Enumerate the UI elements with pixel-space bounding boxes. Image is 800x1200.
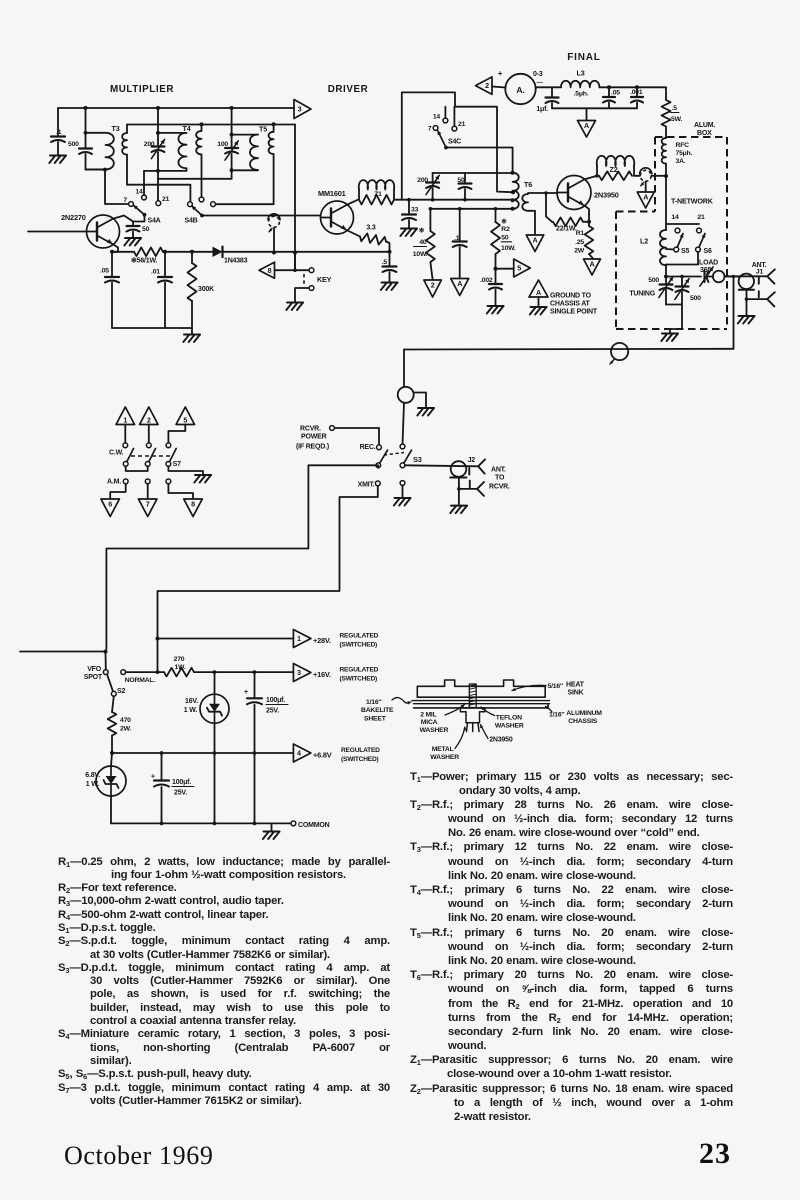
triangle A under feedthrough — [637, 182, 654, 209]
wire 16V zener to bus — [214, 723, 216, 823]
wire tri2 stem — [148, 425, 150, 444]
label S5 — [681, 248, 689, 255]
feedthrough capacitor at driver base — [268, 214, 280, 232]
triangle A under R1 — [584, 259, 601, 275]
contact S3 right throw — [400, 444, 405, 449]
transistor 2N3950 label — [594, 191, 619, 200]
antenna fork J2 lower — [477, 482, 484, 496]
transformer T5 secondary — [215, 124, 274, 204]
svg-text:3.3: 3.3 — [366, 225, 375, 232]
contact S4B-1 — [188, 202, 193, 207]
wire S6 stub — [697, 252, 699, 265]
transformer T6 secondary — [522, 194, 535, 235]
wire 100cap top link — [232, 134, 258, 136]
dashed aluminum box left lower — [615, 212, 617, 330]
label S2 — [117, 688, 125, 695]
svg-text:R1: R1 — [576, 230, 585, 237]
svg-text:FINAL: FINAL — [567, 52, 600, 63]
label 21 tnet — [697, 214, 705, 221]
wire S3 common staircase — [106, 465, 378, 649]
svg-text:WASHER: WASHER — [495, 722, 524, 729]
label ANT TO RCVR — [489, 467, 510, 491]
svg-text:RCVR.: RCVR. — [300, 426, 321, 433]
wire meter to L3 — [536, 86, 561, 88]
wire .05 to bottom bus — [111, 283, 113, 329]
node 200 cap top — [156, 131, 160, 135]
svg-text:T4: T4 — [183, 124, 191, 133]
svg-text:TEFLON: TEFLON — [496, 715, 522, 722]
label ANT J1 — [752, 262, 767, 276]
node emitter-R1 — [587, 220, 591, 224]
wire common ground stem — [271, 823, 273, 831]
svg-text:(SWITCHED): (SWITCHED) — [340, 676, 378, 683]
svg-text:21: 21 — [162, 196, 170, 203]
label LOAD 365 — [699, 260, 718, 275]
wire 100cap feed — [231, 108, 233, 135]
S7 gang dashed — [131, 455, 172, 457]
wire .5 to ground — [389, 272, 391, 282]
label NORMAL — [125, 677, 156, 684]
ground beside feedthrough — [417, 408, 434, 416]
capacitor 200 variable — [144, 133, 165, 159]
contact s7-2 bottom — [145, 479, 150, 484]
bakelite sheet — [412, 701, 550, 704]
node 22 base tap — [544, 191, 548, 195]
svg-text:25V.: 25V. — [266, 708, 279, 715]
svg-text:5: 5 — [183, 415, 187, 424]
wire s7 common 3 to ground — [168, 466, 203, 474]
transistor Q1 2N2270 — [87, 215, 120, 248]
transformer T4 primary — [178, 133, 186, 168]
wire 270 to 16V line — [194, 671, 293, 673]
wire common bus — [111, 822, 291, 824]
node 16V zener top — [213, 670, 217, 674]
svg-text:33: 33 — [411, 207, 419, 214]
wire L2 to tuning node — [665, 265, 667, 277]
node 500b junction — [680, 275, 684, 279]
jack J2 — [451, 461, 467, 477]
antenna fork upper — [767, 269, 775, 283]
svg-text:10W.: 10W. — [501, 245, 516, 252]
svg-text:A.: A. — [516, 85, 524, 95]
wire Q1 emitter to keyed line — [112, 244, 118, 251]
svg-text:A: A — [643, 193, 648, 202]
meter A — [505, 74, 535, 104]
svg-text:5/16″: 5/16″ — [548, 683, 564, 690]
svg-text:+: + — [244, 687, 249, 696]
label 0-3 — [533, 71, 543, 78]
wire 50 cap ground stem — [132, 232, 134, 238]
wire cap1 to bus — [254, 705, 256, 824]
antenna fork J2 upper — [478, 459, 485, 473]
svg-text:—: — — [537, 79, 544, 86]
ground under key jack — [286, 303, 303, 311]
transistor Q3 2N3950 — [557, 176, 591, 210]
diode 1N4383 — [213, 247, 248, 265]
svg-text:+6.8V: +6.8V — [313, 751, 332, 760]
svg-text:.01: .01 — [151, 269, 160, 276]
svg-text:VFO: VFO — [87, 666, 102, 673]
svg-text:BOX: BOX — [697, 130, 712, 137]
svg-text:(SWITCHED): (SWITCHED) — [341, 756, 379, 763]
wire 300K to bottom bus — [191, 301, 193, 328]
capacitor 1uf — [536, 87, 558, 113]
svg-text:7: 7 — [428, 126, 432, 133]
S3 gang dashed link — [384, 453, 404, 456]
suppressor Z1 resistor — [359, 195, 394, 205]
label TUNING — [629, 291, 655, 298]
wire S4A common to collector node — [133, 215, 145, 222]
node zener16 cross — [213, 751, 217, 755]
svg-text:1: 1 — [123, 415, 127, 424]
wire collector node to L2 — [665, 176, 667, 230]
wire top rect horizontal — [402, 92, 513, 199]
label S6 — [704, 248, 712, 255]
triangle A under .1 — [451, 279, 469, 296]
label 14 tnet — [671, 214, 679, 221]
svg-text:ALUM.: ALUM. — [694, 122, 715, 129]
svg-text:3A.: 3A. — [676, 158, 686, 165]
inductor L2 — [640, 230, 666, 265]
svg-text:.25: .25 — [575, 239, 584, 246]
svg-text:SPOT: SPOT — [84, 674, 103, 681]
svg-text:A: A — [536, 288, 541, 297]
wire 21/100cap link — [158, 178, 232, 180]
wire XMIT staircase — [158, 486, 378, 672]
label minus — [537, 79, 544, 86]
triangle 2 under 40 — [424, 280, 442, 297]
wire contact14 drop — [143, 171, 145, 195]
wire tnet bus — [666, 276, 701, 278]
triangle A under T6 link — [526, 235, 544, 252]
contact S5 throw — [675, 228, 680, 233]
svg-text:J2: J2 — [468, 457, 476, 464]
svg-text:REGULATED: REGULATED — [340, 633, 379, 640]
inductor L3 — [561, 69, 599, 98]
suppressor Z2 coil — [597, 156, 635, 176]
aluminum chassis — [414, 705, 549, 708]
wire .002 ground stem — [495, 290, 497, 306]
svg-text:A: A — [457, 279, 462, 288]
label VFO SPOT — [84, 666, 103, 681]
resistor 56/1W — [131, 248, 163, 265]
triangle 3 multiplier output — [294, 100, 311, 119]
node xmit-normal — [156, 670, 160, 674]
svg-text:75μh.: 75μh. — [676, 150, 693, 157]
wire J2 rcvr line — [459, 481, 477, 489]
svg-text:40: 40 — [419, 239, 427, 246]
resistor 40/10W — [413, 209, 435, 262]
transformer T3 primary — [86, 133, 114, 170]
svg-text:Z2: Z2 — [610, 165, 618, 174]
node emitter junction — [110, 250, 114, 254]
ground legend stem — [530, 297, 547, 315]
contact S4A pivot — [143, 213, 147, 217]
svg-text:ANT.: ANT. — [491, 467, 506, 474]
svg-text:5W.: 5W. — [671, 116, 682, 123]
wire 1uf to rail — [551, 103, 553, 108]
wire Q2 emitter — [348, 231, 361, 237]
wire Q3 collector to Z2 — [585, 176, 597, 179]
wire .001 stub — [636, 103, 638, 109]
transistor body 2N3950 sink — [460, 708, 485, 723]
svg-text:50: 50 — [501, 235, 509, 242]
wire Q3 emitter — [585, 206, 589, 215]
contact S5 pivot — [674, 247, 679, 252]
label T-NETWORK — [671, 197, 714, 206]
node bus zener16 — [213, 822, 217, 826]
label +28V — [313, 633, 379, 649]
wire tri1 stem — [124, 425, 126, 444]
switch S4A arm — [134, 205, 145, 215]
node T6 top — [511, 171, 515, 175]
section label FINAL — [567, 52, 600, 63]
zener 16V — [184, 694, 229, 723]
wire 22 right leg — [583, 221, 589, 223]
node T3 feed — [84, 131, 88, 135]
svg-text:7: 7 — [146, 500, 150, 509]
capacitor 100uf 25V second — [151, 753, 194, 797]
node 40 top — [429, 207, 433, 211]
contact S4C-14 — [443, 118, 448, 123]
jack dashed sleeve — [303, 274, 305, 285]
label Z2 — [610, 165, 618, 174]
capacitor .002 — [480, 269, 502, 290]
svg-text:0-3: 0-3 — [533, 71, 543, 78]
wire load to feedthrough — [709, 276, 714, 278]
contact S2 normal — [121, 670, 126, 675]
wire s7 commons 1-2 — [126, 466, 148, 471]
ground under 33 — [400, 229, 417, 237]
node T5 link top — [272, 122, 276, 126]
svg-text:1 W.: 1 W. — [86, 781, 99, 788]
wire VFO input — [28, 231, 87, 233]
label S4A — [148, 218, 161, 225]
node 100 cap top — [230, 133, 234, 137]
contact S4A-7 — [129, 202, 134, 207]
svg-text:22/1W.: 22/1W. — [556, 226, 577, 233]
svg-text:50: 50 — [142, 226, 150, 233]
svg-text:.5μh.: .5μh. — [574, 91, 589, 98]
node 28V tee — [156, 637, 160, 641]
svg-text:2W.: 2W. — [120, 726, 131, 733]
wire triangle2 to meter — [492, 87, 506, 88]
wire S4B common to driver base — [202, 215, 320, 217]
switch S4C arm — [438, 131, 446, 148]
wire vfo stub — [105, 652, 107, 670]
label 14 s4c — [433, 114, 441, 121]
svg-text:WASHER: WASHER — [420, 727, 449, 734]
svg-text:NORMAL.: NORMAL. — [125, 677, 156, 684]
zener 6.8V — [85, 766, 126, 796]
svg-text:1/16″: 1/16″ — [549, 712, 565, 719]
label aluminum chassis — [549, 710, 602, 725]
triangle 3 16V — [293, 664, 311, 682]
transformer T5 label — [259, 125, 267, 134]
label 21 — [162, 196, 170, 203]
resistor R2 50/10W — [491, 209, 516, 254]
svg-text:KEY: KEY — [317, 275, 332, 284]
wire zener68 stem — [111, 753, 112, 766]
capacitor .001 — [630, 87, 643, 102]
triangle 8 key line — [259, 262, 275, 278]
svg-text:6: 6 — [108, 500, 112, 509]
wire L2 bottom rail — [666, 264, 698, 266]
svg-text:270: 270 — [174, 656, 185, 663]
label 7 s4c — [428, 126, 432, 133]
capacitor 100uf 25V first — [244, 687, 288, 715]
svg-text:1/16″: 1/16″ — [366, 699, 382, 706]
label +6.8V — [313, 747, 380, 763]
wire 40 to triangle2 — [430, 262, 432, 280]
svg-text:T5: T5 — [259, 125, 267, 134]
wire Z2 to feedthrough — [634, 175, 640, 177]
capacitor .05 final — [603, 87, 620, 102]
label 5/16 heat sink — [548, 682, 585, 697]
ground tnet — [661, 334, 678, 342]
wire bottom bus ground stem — [191, 328, 193, 334]
ground common — [263, 832, 280, 840]
wire resistor to RFC — [665, 127, 667, 139]
wire J1 rcvr line — [747, 291, 768, 299]
svg-text:CHASSIS: CHASSIS — [568, 718, 597, 725]
svg-text:BAKELITE: BAKELITE — [361, 707, 394, 714]
svg-text:1μf.: 1μf. — [536, 106, 548, 113]
svg-text:RFC: RFC — [676, 142, 690, 149]
wire tank top rail — [433, 172, 513, 174]
node T6 bottom — [511, 207, 515, 211]
wire rcvr power to REC — [334, 428, 379, 445]
svg-text:L3: L3 — [577, 69, 585, 78]
node R2 top — [494, 207, 498, 211]
dashed aluminum box top — [655, 136, 727, 138]
contact S4C-21 — [452, 126, 457, 131]
ground s7 pole3 — [194, 475, 211, 483]
capacitor .5 — [382, 252, 397, 272]
contact rcvr power — [330, 426, 335, 431]
svg-text:.1: .1 — [56, 129, 62, 136]
wire 200cap feed — [157, 108, 159, 133]
wire Q1 collector to S4A — [113, 216, 133, 222]
capacitor 33 — [402, 200, 419, 220]
wire return to S3 — [403, 350, 405, 387]
node cap1 top — [253, 670, 257, 674]
capacitor .1 driver — [453, 209, 467, 247]
wire tank2 bottom rail — [144, 168, 187, 171]
svg-text:S4B: S4B — [185, 218, 198, 225]
svg-text:T3: T3 — [112, 124, 120, 133]
svg-text:T6: T6 — [524, 180, 532, 189]
svg-text:.5: .5 — [672, 105, 678, 112]
wire feedthrough stem — [273, 228, 275, 253]
heat sink slab — [417, 680, 545, 697]
wire 22 left leg — [546, 193, 552, 222]
svg-text:S3: S3 — [413, 455, 422, 464]
label S7 — [173, 461, 181, 468]
node T6 b+ tap — [511, 190, 515, 194]
svg-text:8: 8 — [268, 266, 272, 275]
svg-text:5: 5 — [517, 264, 521, 273]
leader bakelite — [392, 698, 411, 705]
label KEY — [317, 275, 332, 284]
node feedthrough-keyed bus — [272, 251, 276, 255]
svg-text:1N4383: 1N4383 — [224, 258, 248, 265]
leader teflon — [481, 707, 495, 716]
resistor .5/5W — [662, 100, 683, 127]
section label MULTIPLIER — [110, 84, 174, 95]
wire L3 to caps — [599, 86, 666, 88]
transistor Q2 MM1601 — [321, 201, 354, 234]
contact S2 vfo — [103, 670, 108, 675]
capacitor 500 second variable — [675, 277, 701, 303]
wire 50d bottom — [464, 189, 466, 200]
wire S4C common to T6 — [446, 148, 513, 173]
svg-text:470: 470 — [120, 717, 131, 724]
svg-text:XMIT.: XMIT. — [358, 482, 375, 489]
node cap2 top — [160, 751, 164, 755]
capacitor 50 bypass — [127, 222, 150, 234]
wire final rail — [552, 107, 637, 109]
wire return vertical — [733, 277, 735, 349]
wire T6 sec to base — [528, 192, 558, 194]
svg-text:2W: 2W — [574, 248, 585, 255]
dashed aluminum box bottom — [616, 328, 727, 330]
resistor 270 1W — [164, 656, 194, 676]
svg-text:MM1601: MM1601 — [318, 189, 346, 198]
wire feedthrough to J1 — [725, 276, 740, 278]
svg-text:S4C: S4C — [448, 139, 461, 146]
wire S3 ground stub — [402, 485, 404, 497]
wire 200cap top link — [158, 132, 187, 134]
contact S3 left throw — [377, 445, 382, 450]
svg-text:MICA: MICA — [421, 719, 438, 726]
switch S3 right arm — [403, 450, 412, 465]
svg-text:500: 500 — [68, 141, 79, 148]
node 200 cap bottom — [156, 169, 160, 173]
capacitor 100 variable — [217, 135, 238, 161]
wire 16V zener stem — [214, 672, 216, 694]
capacitor .1 — [51, 129, 65, 142]
resistor 470 2W — [108, 712, 132, 736]
svg-text:300K: 300K — [198, 286, 214, 293]
contact s7 pivot1 — [123, 462, 128, 467]
node T6 tap2 — [511, 198, 515, 202]
svg-text:MULTIPLIER: MULTIPLIER — [110, 84, 174, 95]
wire 500 cap to tank bottom — [86, 154, 106, 170]
wire left feed — [20, 651, 106, 653]
leader heat sink — [512, 685, 546, 691]
node 50d bottom — [463, 198, 467, 202]
triangle 2 s7 — [140, 407, 159, 425]
choke RFC — [662, 138, 693, 165]
suppressor Z1 coil — [359, 180, 395, 200]
wire .1d to triangleA — [459, 247, 461, 278]
svg-text:REC.: REC. — [360, 444, 376, 451]
contact S3 ground throw — [400, 481, 405, 486]
svg-text:2N3950: 2N3950 — [594, 191, 619, 200]
transformer T6 label — [524, 180, 532, 189]
svg-text:6.8V.: 6.8V. — [85, 772, 100, 779]
contact s7-2 top — [146, 443, 151, 448]
feedthrough at PA output — [640, 168, 652, 186]
leader metal — [455, 727, 467, 749]
label 500 tuning — [648, 277, 659, 284]
wire 33 ground stem — [408, 220, 410, 228]
ground under S3 — [394, 498, 411, 506]
svg-text:J1: J1 — [756, 269, 764, 276]
node vfo junction — [104, 650, 108, 654]
svg-text:500: 500 — [690, 295, 701, 302]
